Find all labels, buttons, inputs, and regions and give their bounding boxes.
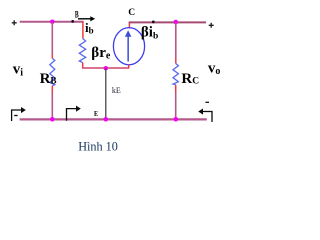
svg-text:RB: RB — [40, 71, 57, 87]
svg-text:ib: ib — [85, 20, 94, 36]
wire corner B down red — [82, 21, 84, 39]
svg-text:vo: vo — [208, 61, 221, 77]
wire top-left horizontal — [20, 21, 84, 23]
minus terminal right with arrow — [198, 102, 212, 122]
wire RB lead top red — [51, 55, 53, 59]
node junction dot RC top — [174, 20, 179, 25]
current source circle — [113, 28, 144, 65]
svg-text:βib: βib — [141, 25, 158, 42]
wire RC lead bottom red — [175, 85, 177, 93]
svg-text:C: C — [128, 8, 135, 18]
svg-text:kE: kE — [112, 86, 121, 95]
plus terminal right — [209, 23, 214, 28]
wire RC lead top red — [175, 58, 177, 64]
wire RB vertical top — [51, 22, 53, 55]
wire collector bottom red — [128, 65, 130, 68]
wire emitter vertical dark — [105, 68, 107, 119]
node B tick dot — [71, 20, 74, 23]
wire beta-re bottom lead — [82, 63, 84, 68]
svg-text:E: E — [94, 109, 98, 118]
wire emitter horizontal — [82, 67, 129, 69]
wire top-right horizontal — [129, 21, 206, 23]
arrow ib — [78, 16, 95, 21]
wire collector top red — [128, 22, 130, 29]
node junction dot rail-E — [104, 117, 109, 122]
svg-text:βre: βre — [91, 45, 111, 62]
node junction dot rail-RC — [174, 117, 179, 122]
node junction dot B-RB — [50, 20, 55, 25]
node junction dot rail-RB — [50, 117, 55, 122]
svg-text:vi: vi — [13, 62, 24, 79]
plus terminal left — [12, 20, 17, 25]
node junction dot emitter — [104, 66, 108, 70]
wire RB vertical bottom — [51, 93, 53, 120]
wire bottom rail — [20, 118, 207, 120]
minus terminal left with arrow — [12, 107, 26, 121]
wire RB lead bottom red — [51, 86, 53, 93]
svg-text:Hình 10: Hình 10 — [78, 139, 118, 153]
arrow emitter current — [67, 106, 81, 121]
resistor RC — [173, 64, 178, 85]
resistor RB — [50, 58, 55, 86]
node C tick dot — [152, 21, 155, 24]
current source arrow — [125, 30, 131, 61]
wire RC vertical bottom — [175, 93, 177, 120]
resistor beta-re — [79, 39, 85, 63]
svg-text:RC: RC — [181, 71, 199, 87]
wire RC vertical top — [175, 22, 177, 58]
